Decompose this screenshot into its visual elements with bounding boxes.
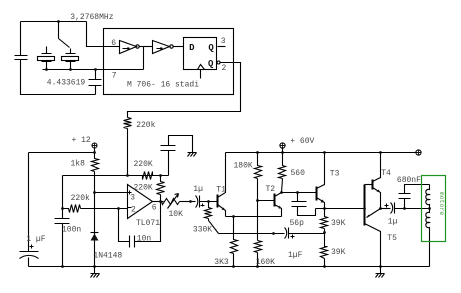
- junction: [117, 207, 120, 210]
- op-amp U3 TL071: [128, 185, 153, 219]
- junction: [272, 232, 275, 235]
- capacitor C6 1u: [196, 196, 205, 208]
- motor box: [422, 176, 446, 242]
- svg-text:6: 6: [111, 39, 116, 48]
- svg-text:6: 6: [152, 204, 157, 213]
- wire pot to C6: [180, 201, 196, 203]
- svg-text:180K: 180K: [234, 162, 253, 171]
- ground below diode: [94, 267, 96, 274]
- junction: [256, 265, 259, 268]
- junction: [45, 68, 48, 71]
- svg-text:1N4148: 1N4148: [93, 252, 122, 261]
- junction: [323, 207, 326, 210]
- svg-text:330K: 330K: [193, 226, 212, 235]
- wire R7 to C8 feedback line: [219, 233, 285, 235]
- wire crystal bottom rail to pin 7: [43, 69, 144, 71]
- wire C8 to 39K divider: [289, 233, 325, 235]
- resistor R10 160K: [257, 201, 259, 241]
- resistor R3 220k: [63, 205, 81, 213]
- power +60V terminal: [280, 143, 286, 153]
- resistor R7 330K: [205, 202, 219, 234]
- junction: [232, 215, 235, 218]
- svg-text:2: 2: [131, 205, 136, 214]
- transistor Q5 T5: [365, 209, 381, 267]
- capacitor C2 1uF electrolytic: [20, 245, 39, 259]
- transistor Q2 T2: [258, 193, 282, 217]
- terminal output: [416, 150, 422, 155]
- wire Q output stub pin 3: [218, 46, 226, 48]
- junction: [296, 191, 299, 194]
- junction: [69, 68, 72, 71]
- wire clock stub: [200, 70, 202, 79]
- resistor R2 1k8: [92, 153, 99, 193]
- svg-text:56p: 56p: [290, 219, 305, 228]
- capacitor C4 to ground: [161, 136, 193, 176]
- wire feedback node column: [62, 176, 64, 219]
- wire C3 to ground rail: [62, 224, 64, 267]
- transistor Q1 T1: [218, 153, 226, 217]
- junction: [428, 207, 431, 210]
- ground near C4: [188, 153, 197, 157]
- wire R1 to summing line: [127, 129, 129, 176]
- wire C2 to ground rail: [28, 258, 30, 267]
- power +12 terminal: [92, 143, 97, 149]
- svg-text:Q: Q: [208, 59, 214, 69]
- junction: [403, 207, 406, 210]
- junction: [159, 174, 162, 177]
- wire T2 collector to T3 base: [282, 192, 317, 194]
- svg-text:M 706- 16 stadi: M 706- 16 stadi: [127, 81, 199, 90]
- wire +12 feed: [29, 149, 95, 153]
- svg-text:680nF: 680nF: [397, 176, 421, 185]
- svg-text:T1: T1: [216, 186, 226, 195]
- svg-text:T4: T4: [381, 169, 391, 178]
- junction: [94, 68, 97, 71]
- capacitor C8 1uF feedback: [285, 228, 295, 239]
- junction: [379, 151, 382, 154]
- svg-text:3: 3: [221, 37, 226, 46]
- clock input triangle: [198, 65, 205, 70]
- junction: [232, 265, 235, 268]
- wire C9 to motor: [395, 208, 430, 210]
- junction: [126, 174, 129, 177]
- capacitor C7 56p: [292, 193, 316, 216]
- potentiometer R6 10K: [162, 194, 180, 209]
- svg-text:+ 60V: + 60V: [290, 137, 314, 146]
- capacitor C3 100n: [55, 219, 70, 224]
- wire feedback to pin 7: [143, 47, 145, 70]
- resistor R1 220k: [124, 118, 132, 129]
- svg-text:2: 2: [222, 64, 227, 73]
- capacitor C9 1u output: [381, 203, 395, 214]
- resistor R9 180K: [255, 153, 262, 201]
- svg-text:T5: T5: [387, 234, 397, 243]
- wire C6 to T1 base: [200, 201, 218, 203]
- wire Q-bar pin 2 routing: [128, 63, 241, 118]
- capacitor C10 680nF: [399, 185, 430, 209]
- svg-text:motore: motore: [438, 192, 445, 216]
- junction: [323, 151, 326, 154]
- svg-text:+ 12: + 12: [72, 136, 91, 145]
- svg-text:T3: T3: [330, 170, 340, 179]
- junction: [93, 191, 96, 194]
- flip-flop U2: [184, 38, 217, 70]
- wire below left capacitor: [21, 60, 96, 95]
- wire U1a out to U1b in: [140, 46, 153, 48]
- wire U1b out to D input: [173, 46, 184, 48]
- wire op-amp output: [153, 201, 164, 203]
- junction: [256, 199, 259, 202]
- svg-text:1µ: 1µ: [193, 185, 203, 194]
- ground below T5: [380, 267, 382, 274]
- switch SPDT crystal selector: [59, 22, 70, 48]
- svg-text:3: 3: [130, 193, 135, 202]
- svg-text:3K3: 3K3: [214, 258, 229, 267]
- svg-text:T2: T2: [266, 185, 276, 194]
- svg-text:10K: 10K: [169, 210, 184, 219]
- transistor Q3 T3: [317, 153, 325, 209]
- inductor L2 motor winding: [426, 209, 430, 267]
- junction: [93, 265, 96, 268]
- wire feedback summing line: [63, 175, 169, 177]
- svg-text:10n: 10n: [137, 234, 152, 243]
- junction: [159, 200, 162, 203]
- svg-text:1k8: 1k8: [71, 160, 86, 169]
- wire noninverting input: [95, 192, 128, 194]
- junction: [93, 151, 96, 154]
- junction: [379, 207, 382, 210]
- junction: [323, 231, 326, 234]
- junction: [207, 200, 210, 203]
- capacitor left trimmer: [15, 56, 28, 60]
- resistor R4 220K: [143, 172, 153, 180]
- resistor R12 39K: [321, 209, 328, 233]
- inductor L1 motor winding: [426, 185, 430, 209]
- svg-text:220K: 220K: [134, 184, 153, 193]
- svg-text:TL071: TL071: [136, 219, 160, 228]
- junction: [323, 265, 326, 268]
- crystal X2: [62, 49, 79, 70]
- resistor R11 560: [279, 153, 286, 193]
- IC box M 706 - 16 stadi: [104, 29, 234, 95]
- junction: [61, 207, 64, 210]
- svg-text:4.433619: 4.433619: [47, 78, 86, 87]
- diode D1 1N4148: [91, 193, 99, 267]
- junction: [189, 200, 192, 203]
- svg-text:220K: 220K: [134, 160, 153, 169]
- svg-text:220k: 220k: [71, 194, 90, 203]
- svg-text:220k: 220k: [136, 121, 155, 130]
- svg-text:3,2768MHz: 3,2768MHz: [70, 13, 113, 22]
- inverted Q output bubble: [217, 61, 220, 64]
- wire T3 emitter to output bases: [316, 208, 365, 210]
- junction: [256, 151, 259, 154]
- junction: [61, 265, 64, 268]
- transistor Q4 T4: [365, 153, 381, 209]
- wire R3 to inverting input: [81, 208, 128, 210]
- wire T1-T2 emitters: [226, 216, 282, 218]
- junction: [281, 151, 284, 154]
- svg-text:7: 7: [112, 72, 117, 81]
- wire oscillator output to pin 6: [87, 22, 120, 47]
- resistor R5 220K feedback: [157, 176, 165, 202]
- svg-text:1µ: 1µ: [388, 218, 398, 227]
- junction: [379, 265, 382, 268]
- svg-text:Q: Q: [208, 43, 214, 53]
- inverter U1a: [120, 41, 140, 54]
- node switch-pole junction: [57, 20, 60, 23]
- inverter U1b: [153, 41, 174, 54]
- svg-text:D: D: [189, 43, 195, 53]
- wire +60V top rail: [226, 152, 417, 154]
- wire left supply column: [28, 153, 30, 252]
- svg-text:1 µF: 1 µF: [26, 235, 45, 244]
- junction: [363, 207, 366, 210]
- crystal X1: [38, 47, 55, 70]
- svg-text:39K: 39K: [331, 248, 346, 257]
- wire output bases column: [364, 185, 366, 226]
- wire ground bottom rail: [29, 266, 430, 268]
- wire left side of oscillator loop: [20, 22, 22, 56]
- svg-text:1µF: 1µF: [288, 251, 303, 260]
- wire top rail of oscillator loop: [21, 21, 87, 23]
- svg-text:560: 560: [291, 169, 306, 178]
- svg-text:39K: 39K: [331, 219, 346, 228]
- resistor R13 39K: [321, 233, 328, 267]
- capacitor 4.433619 crystal load: [89, 70, 102, 95]
- junction: [280, 191, 283, 194]
- capacitor C5 10n loop: [119, 202, 161, 248]
- svg-text:100n: 100n: [62, 226, 81, 235]
- resistor R8 3K3: [231, 217, 238, 267]
